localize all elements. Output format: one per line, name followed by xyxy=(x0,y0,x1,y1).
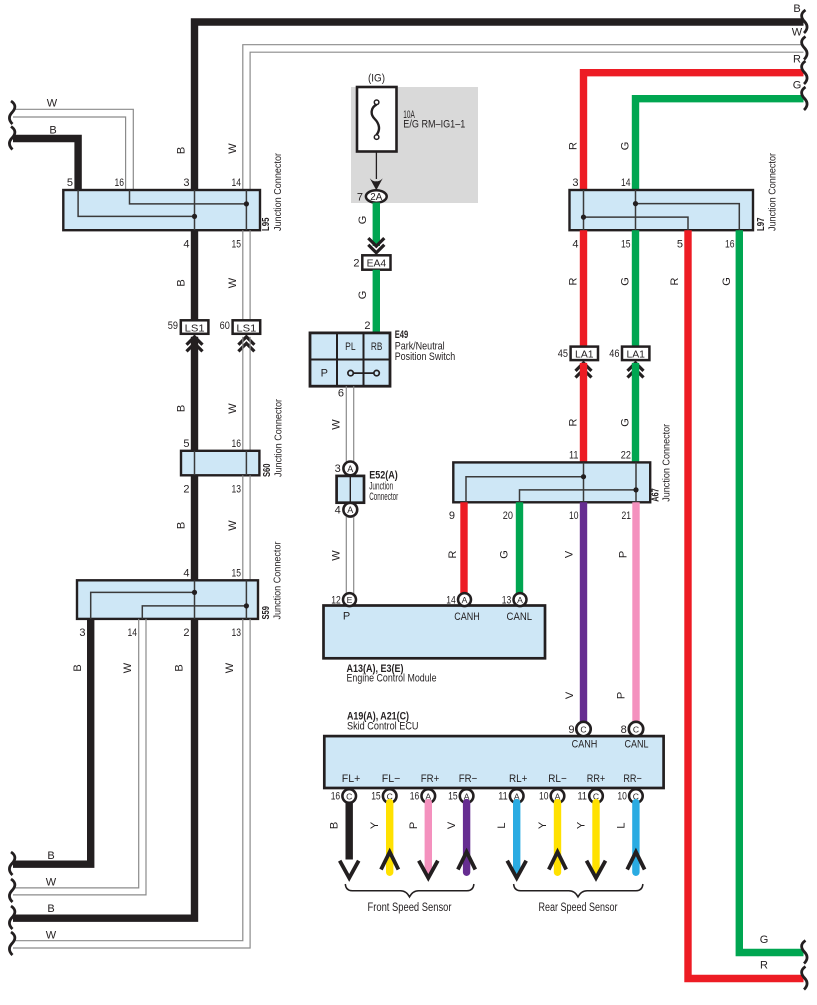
break squiggle W2 left xyxy=(9,932,14,955)
wire G EA4 to E49 pin 2 xyxy=(373,270,380,333)
wire G 2A to EA4 xyxy=(373,203,380,247)
svg-text:LA1: LA1 xyxy=(575,349,594,360)
svg-text:S59: S59 xyxy=(261,606,272,620)
svg-text:21: 21 xyxy=(622,510,632,522)
svg-text:15: 15 xyxy=(371,791,381,803)
junction connector A67 box xyxy=(453,462,650,502)
svg-text:B: B xyxy=(329,822,341,829)
svg-text:FR+: FR+ xyxy=(421,773,440,785)
svg-text:5: 5 xyxy=(183,438,189,450)
chevron up RL- xyxy=(549,852,566,870)
svg-text:L: L xyxy=(496,822,508,828)
svg-text:FL+: FL+ xyxy=(342,773,361,785)
svg-text:13: 13 xyxy=(232,484,242,496)
wire V FR- sensor xyxy=(463,803,470,873)
svg-text:22: 22 xyxy=(621,450,631,462)
E52 pin 4 circle A xyxy=(343,503,357,517)
fuse block shaded region xyxy=(351,87,478,203)
svg-text:V: V xyxy=(446,821,458,829)
S60 internal through-line W xyxy=(245,451,247,476)
svg-text:G: G xyxy=(793,80,802,92)
wire B entering from left edge into L95 pin 5 xyxy=(13,139,78,191)
svg-text:59: 59 xyxy=(168,320,178,332)
svg-text:W: W xyxy=(227,143,239,154)
break squiggle G top right xyxy=(802,87,807,110)
svg-text:10: 10 xyxy=(539,791,549,803)
connector LS1 pin 60 box xyxy=(233,320,261,334)
svg-text:6: 6 xyxy=(338,388,344,400)
svg-text:RL−: RL− xyxy=(548,773,567,785)
svg-text:B: B xyxy=(176,522,188,529)
E49 switch contacts xyxy=(353,372,374,374)
svg-text:B: B xyxy=(176,147,188,154)
svg-text:P: P xyxy=(618,551,630,558)
wire W S60 pin13 to S59 pin 15 xyxy=(242,475,244,580)
arrow down RL+ xyxy=(507,861,526,878)
svg-text:Y: Y xyxy=(576,821,588,829)
svg-text:Junction Connector: Junction Connector xyxy=(272,153,284,231)
svg-text:R: R xyxy=(669,277,681,285)
svg-text:11: 11 xyxy=(498,791,508,803)
svg-text:V: V xyxy=(564,691,576,699)
Skid pin 9 circle C xyxy=(576,722,590,736)
svg-text:46: 46 xyxy=(609,348,619,360)
wire W top horizontal + vertical into L95 pin 14 xyxy=(243,45,804,190)
svg-text:15: 15 xyxy=(232,568,242,580)
svg-text:G: G xyxy=(620,142,632,151)
svg-text:11: 11 xyxy=(569,450,579,462)
svg-text:13: 13 xyxy=(232,627,242,639)
svg-text:LA1: LA1 xyxy=(626,349,645,360)
svg-text:16: 16 xyxy=(410,791,420,803)
wire L RL+ sensor xyxy=(513,803,520,870)
wire P FR+ sensor xyxy=(425,803,432,870)
S59 junction dot on B xyxy=(192,590,197,595)
ECM pin 13 circle A xyxy=(514,593,527,606)
svg-text:Position Switch: Position Switch xyxy=(395,351,456,363)
svg-text:5: 5 xyxy=(677,239,683,251)
svg-text:W: W xyxy=(331,419,343,430)
svg-text:B: B xyxy=(793,3,800,15)
break squiggle R bottom right xyxy=(802,967,807,990)
svg-text:4: 4 xyxy=(183,568,189,580)
A67 junction dot on R xyxy=(581,474,586,479)
svg-text:9: 9 xyxy=(449,510,455,522)
svg-text:3: 3 xyxy=(183,177,189,189)
Skid pin 10 circle A (RL-) xyxy=(557,788,559,790)
Skid pin 15 circle C (FL-) xyxy=(389,788,391,790)
svg-text:G: G xyxy=(721,277,733,286)
svg-text:V: V xyxy=(564,550,576,558)
svg-text:2: 2 xyxy=(353,258,359,270)
svg-text:Junction Connector: Junction Connector xyxy=(767,153,779,231)
junction connector L95 box xyxy=(63,190,260,230)
S59 internal tap pin14 to W xyxy=(142,606,246,619)
fuse element symbol xyxy=(372,105,379,135)
svg-text:L: L xyxy=(615,822,627,828)
svg-text:G: G xyxy=(357,291,369,300)
connector LS1 pin 59 box xyxy=(181,320,209,334)
svg-text:W: W xyxy=(224,662,236,673)
svg-text:Junction Connector: Junction Connector xyxy=(273,399,285,477)
svg-text:B: B xyxy=(49,125,56,137)
break squiggle G bottom right xyxy=(802,941,807,964)
chevron below LA1-45 xyxy=(576,363,592,378)
svg-text:B: B xyxy=(47,850,54,862)
svg-text:LS1: LS1 xyxy=(185,323,205,334)
svg-text:RL+: RL+ xyxy=(509,773,528,785)
arrowhead into 2A xyxy=(370,178,383,190)
svg-text:W: W xyxy=(227,403,239,414)
svg-text:B: B xyxy=(176,405,188,412)
A67 junction dot on G xyxy=(633,487,638,492)
svg-text:2: 2 xyxy=(183,627,189,639)
svg-text:14: 14 xyxy=(446,595,456,607)
svg-text:Skid Control ECU: Skid Control ECU xyxy=(347,721,419,733)
svg-text:RR+: RR+ xyxy=(587,773,606,785)
Skid pin 10 circle C (RR-) xyxy=(635,788,637,790)
ECM pin 14 circle A xyxy=(458,593,471,606)
svg-text:R: R xyxy=(760,960,768,972)
S59 internal through-line B (pin4-pin2) xyxy=(194,580,196,619)
break squiggle B2 left xyxy=(9,906,14,929)
Skid pin 16 circle C (FL+) xyxy=(348,788,350,790)
svg-text:G: G xyxy=(760,934,769,946)
svg-text:C: C xyxy=(633,724,639,734)
svg-text:CANL: CANL xyxy=(507,611,533,623)
svg-text:15: 15 xyxy=(448,791,458,803)
svg-text:14: 14 xyxy=(232,177,242,189)
svg-text:Rear Speed Sensor: Rear Speed Sensor xyxy=(539,902,618,914)
L95 junction dot on B xyxy=(192,214,197,219)
svg-text:10: 10 xyxy=(617,791,627,803)
L97 junction dot on R xyxy=(581,215,586,220)
wire Y FL- sensor xyxy=(386,803,393,873)
svg-text:W: W xyxy=(227,277,239,288)
svg-text:A: A xyxy=(462,595,468,605)
svg-text:Junction Connector: Junction Connector xyxy=(272,541,284,619)
svg-text:Connector: Connector xyxy=(369,491,398,503)
svg-text:16: 16 xyxy=(115,177,125,189)
svg-text:8: 8 xyxy=(621,724,627,736)
L95 junction dot on W xyxy=(244,201,249,206)
junction connector E52 box xyxy=(337,476,364,503)
wire R L97 pin5 down to bottom right edge xyxy=(688,230,804,978)
stub Skid CANL pin xyxy=(635,734,637,737)
L97 internal through-line G (pin14-pin15) xyxy=(635,190,637,230)
chevron below LS1-59 xyxy=(187,337,203,352)
svg-text:G: G xyxy=(620,418,632,427)
Skid pin 8 circle C xyxy=(629,722,643,736)
L95 internal tap pin5 to B xyxy=(78,190,194,216)
svg-text:W: W xyxy=(122,662,134,673)
S59 junction dot on W xyxy=(244,603,249,608)
svg-text:PL: PL xyxy=(345,341,356,353)
double chevron into EA4 xyxy=(368,238,384,253)
svg-text:R: R xyxy=(568,418,580,426)
connector oval 2A pin 7 xyxy=(366,190,387,202)
svg-text:13: 13 xyxy=(502,595,512,607)
Skid pin 15 circle A (FR-) xyxy=(466,788,468,790)
svg-text:C: C xyxy=(580,724,586,734)
svg-text:A: A xyxy=(517,595,523,605)
svg-text:A: A xyxy=(347,505,353,515)
svg-text:11: 11 xyxy=(578,791,588,803)
svg-text:45: 45 xyxy=(558,348,568,360)
chevron up RR- xyxy=(627,852,644,870)
svg-text:G: G xyxy=(357,216,369,225)
svg-text:E/G RM–IG1–1: E/G RM–IG1–1 xyxy=(403,119,465,131)
wire G LA1-46 to A67 pin 22 xyxy=(632,363,639,463)
svg-text:14: 14 xyxy=(128,627,138,639)
wire R A67 pin9 to ECM CANH xyxy=(460,502,467,594)
L97 junction dot on G xyxy=(633,201,638,206)
svg-text:E: E xyxy=(347,595,353,605)
S59 internal through-line W (pin15-pin13) xyxy=(245,580,247,619)
wire G top horizontal + vertical into L97 pin 14 xyxy=(636,99,804,190)
svg-text:RB: RB xyxy=(371,341,383,353)
wire B S60 pin2 to S59 pin 4 xyxy=(191,475,198,580)
svg-text:15: 15 xyxy=(621,239,631,251)
svg-text:3: 3 xyxy=(572,177,578,189)
svg-text:W: W xyxy=(46,877,57,889)
svg-text:W: W xyxy=(227,520,239,531)
S59 internal tap pin3 to B xyxy=(91,592,195,619)
wire R L97 pin4 to LA1-45 xyxy=(580,230,587,346)
wire P A67 pin21 to Skid CANL xyxy=(632,502,639,722)
svg-text:R: R xyxy=(793,54,801,66)
svg-text:7: 7 xyxy=(357,191,363,203)
svg-text:2: 2 xyxy=(364,320,370,332)
svg-text:4: 4 xyxy=(335,505,341,517)
L95 internal tap pin16 to W xyxy=(130,190,247,204)
svg-text:W: W xyxy=(331,550,343,561)
break squiggle W top right xyxy=(802,37,807,60)
A67 internal through-line R/V (pin11-pin10) xyxy=(583,462,585,502)
ECM pin 12 circle E xyxy=(343,593,356,606)
svg-text:P: P xyxy=(343,611,350,623)
wire G A67 pin20 to ECM CANL xyxy=(516,502,523,594)
arrow down FL+ xyxy=(340,861,359,878)
A67 internal tap pin20 to G xyxy=(520,490,637,502)
svg-text:B: B xyxy=(47,903,54,915)
A67 internal tap pin9 to R xyxy=(466,477,584,503)
svg-text:Front Speed Sensor: Front Speed Sensor xyxy=(368,902,452,914)
L97 internal tap R to pin5 xyxy=(584,217,689,230)
svg-text:16: 16 xyxy=(232,438,242,450)
ECU A13 Engine Control Module box xyxy=(324,606,546,659)
svg-text:CANL: CANL xyxy=(625,739,649,751)
Skid pin 11 circle C (RR+) xyxy=(595,788,597,790)
wire W E49 pin6 to E52 pin 3 xyxy=(345,386,347,462)
svg-text:A: A xyxy=(347,464,353,474)
svg-text:12: 12 xyxy=(331,595,341,607)
break squiggle R top right xyxy=(802,61,807,84)
connector EA4 pin 2 box xyxy=(362,255,390,269)
wire B FL+ sensor xyxy=(346,803,353,860)
brace Front Speed Sensor xyxy=(345,884,474,897)
svg-text:W: W xyxy=(46,930,57,942)
svg-text:P: P xyxy=(616,692,628,699)
svg-text:P: P xyxy=(408,822,420,829)
svg-text:L95: L95 xyxy=(261,217,272,231)
L95 internal through-line B (pin3-pin4) xyxy=(194,190,196,230)
break squiggle B top right xyxy=(802,10,807,33)
svg-text:3: 3 xyxy=(335,463,341,475)
svg-text:E49: E49 xyxy=(395,329,409,341)
svg-text:EA4: EA4 xyxy=(367,259,387,270)
chevron below LS1-60 xyxy=(238,337,254,352)
chevron up FR- xyxy=(458,852,475,870)
svg-text:R: R xyxy=(447,550,459,558)
svg-text:Y: Y xyxy=(537,821,549,829)
wire R LA1-45 to A67 pin 11 xyxy=(580,363,587,463)
break squiggle W1 left xyxy=(9,879,14,902)
svg-text:5: 5 xyxy=(67,177,73,189)
svg-text:16: 16 xyxy=(725,239,735,251)
svg-text:R: R xyxy=(568,142,580,150)
ECU A19 Skid Control ECU box xyxy=(324,736,663,788)
A67 internal through-line G/P (pin22-pin21) xyxy=(635,462,637,502)
svg-text:2: 2 xyxy=(183,484,189,496)
svg-text:RR−: RR− xyxy=(623,773,642,785)
svg-text:CANH: CANH xyxy=(572,739,598,751)
svg-text:10: 10 xyxy=(569,510,579,522)
svg-text:16: 16 xyxy=(331,791,341,803)
connector LA1 pin 45 box xyxy=(571,347,598,361)
svg-text:G: G xyxy=(620,277,632,286)
Skid pin 11 circle A (RL+) xyxy=(516,788,518,790)
svg-text:P: P xyxy=(321,368,328,380)
brace Rear Speed Sensor xyxy=(514,884,643,897)
svg-text:FR−: FR− xyxy=(459,773,478,785)
wire W S59 pin14 down-left to edge xyxy=(13,619,139,888)
svg-text:Y: Y xyxy=(369,821,381,829)
junction connector L97 box xyxy=(570,190,754,230)
svg-text:S60: S60 xyxy=(262,463,273,477)
wire W LS1-60 to S60 pin 16 xyxy=(242,337,244,451)
svg-text:C: C xyxy=(346,791,352,801)
wire B S59 pin2 down-left to edge xyxy=(13,619,195,918)
L97 internal tap G to pin16 xyxy=(636,204,740,231)
svg-text:Junction Connector: Junction Connector xyxy=(661,423,673,501)
wire G L97 pin15 to LA1-46 xyxy=(632,230,639,346)
svg-text:W: W xyxy=(47,98,58,110)
L95 internal through-line W (pin14-pin15) xyxy=(245,190,247,230)
svg-text:CANH: CANH xyxy=(454,611,480,623)
svg-text:B: B xyxy=(174,664,186,671)
svg-text:60: 60 xyxy=(220,320,230,332)
svg-text:LS1: LS1 xyxy=(236,323,256,334)
S60 internal through-line B xyxy=(194,451,196,476)
wire W E52 pin4 to ECM pin 12 xyxy=(345,517,347,594)
connector LA1 pin 46 box xyxy=(622,347,649,361)
break squiggle B left xyxy=(9,127,14,150)
svg-text:(IG): (IG) xyxy=(368,73,385,85)
E49 grid lines xyxy=(336,333,338,386)
wire W L95 pin15 to LS1-60 xyxy=(242,230,244,320)
wire W entering from left edge xyxy=(13,109,133,190)
svg-text:14: 14 xyxy=(621,177,631,189)
svg-text:20: 20 xyxy=(503,510,513,522)
wire B S59 pin3 down-left to edge xyxy=(13,619,91,864)
svg-text:3: 3 xyxy=(79,627,85,639)
svg-text:B: B xyxy=(72,664,84,671)
svg-text:FL−: FL− xyxy=(382,773,401,785)
E52 pin 3 circle A xyxy=(343,462,357,476)
svg-text:Engine Control Module: Engine Control Module xyxy=(347,673,437,685)
svg-text:B: B xyxy=(176,279,188,286)
svg-text:G: G xyxy=(499,550,511,559)
wire W S59 pin13 down-left to edge xyxy=(13,619,243,941)
wire B top horizontal + vertical into L95 pin 3 xyxy=(195,22,804,190)
svg-text:L97: L97 xyxy=(756,217,767,231)
arrow down FR+ xyxy=(419,861,438,878)
wire B L95 pin4 to LS1-59 xyxy=(191,230,198,320)
Skid pin 16 circle A (FR+) xyxy=(427,788,429,790)
junction connector S59 box xyxy=(77,580,258,619)
wire Y RR+ sensor xyxy=(592,803,599,870)
L97 internal through-line R (pin3-pin4) xyxy=(583,190,585,230)
svg-text:15: 15 xyxy=(232,239,242,251)
wire R top horizontal + vertical into L97 pin 3 xyxy=(584,73,804,190)
chevron up FL- xyxy=(381,852,398,870)
junction connector S60 box xyxy=(181,451,259,476)
fuse F (IG) box xyxy=(357,87,397,152)
wire L RR- sensor xyxy=(632,803,639,873)
stub Skid CANH pin xyxy=(583,734,585,737)
svg-text:4: 4 xyxy=(572,239,578,251)
svg-text:4: 4 xyxy=(183,239,189,251)
svg-text:W: W xyxy=(792,27,803,39)
wire V A67 pin10 to Skid CANH xyxy=(580,502,587,722)
arrow down RR+ xyxy=(587,861,606,878)
svg-text:2A: 2A xyxy=(370,192,382,203)
wire B LS1-59 to S60 pin 5 xyxy=(191,337,198,451)
break squiggle W left xyxy=(9,101,14,124)
wire Y RL- sensor xyxy=(554,803,561,873)
wire fuse to connector 2A xyxy=(375,152,377,179)
svg-text:R: R xyxy=(568,277,580,285)
switch E49 box xyxy=(310,333,390,386)
svg-text:9: 9 xyxy=(568,724,574,736)
chevron below LA1-46 xyxy=(628,363,644,378)
wire G L97 pin16 down to bottom right edge xyxy=(739,230,803,952)
break squiggle B1 left xyxy=(9,852,14,875)
